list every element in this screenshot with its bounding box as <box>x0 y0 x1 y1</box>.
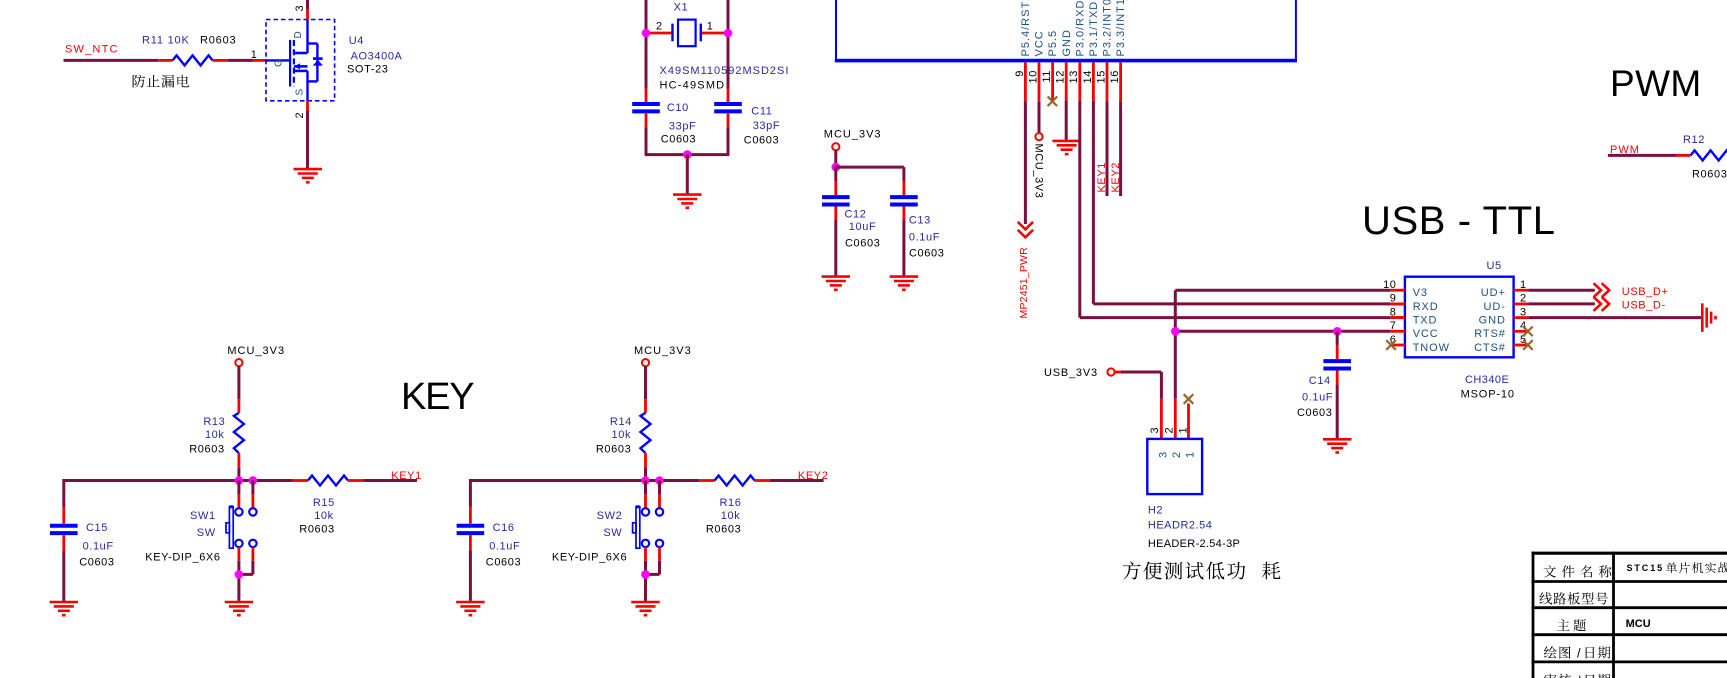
svg-text:C0603: C0603 <box>744 135 779 147</box>
svg-text:10k: 10k <box>612 429 632 441</box>
power port MCU_3V3 <box>824 129 882 151</box>
resistor R16 <box>699 476 770 536</box>
svg-text:MCU_3V3: MCU_3V3 <box>634 345 692 357</box>
svg-text:C16: C16 <box>493 522 515 534</box>
svg-text:C0603: C0603 <box>845 238 880 250</box>
power port USB_3V3 <box>1044 367 1115 379</box>
wire MCU_3V3 to R13 <box>237 366 240 413</box>
svg-text:R13: R13 <box>203 416 225 428</box>
ground C12 <box>822 277 851 290</box>
wire to KEY1 label <box>363 479 417 482</box>
table label 审核/日期 partial <box>1544 673 1610 678</box>
ground C15 <box>50 602 79 615</box>
svg-text:9: 9 <box>1390 293 1397 305</box>
svg-text:11: 11 <box>1041 70 1053 83</box>
wire KEY1 <box>1106 101 1109 196</box>
svg-text:R0603: R0603 <box>189 444 224 456</box>
svg-text:R11 10K: R11 10K <box>142 35 190 47</box>
MCU pin 16 P3.3/INT1 <box>1109 0 1127 101</box>
MCU pin 10 VCC <box>1027 30 1045 101</box>
wire C10 down <box>645 128 648 155</box>
wire SW1 left top <box>237 481 240 509</box>
svg-text:G: G <box>274 59 285 67</box>
wire SW1 right top <box>251 481 254 509</box>
header pin1 number <box>1177 427 1189 434</box>
svg-text:SW2: SW2 <box>597 510 623 522</box>
wire R13 to node <box>237 468 240 481</box>
svg-text:MP2451_PWR: MP2451_PWR <box>1018 247 1030 319</box>
svg-text:C0603: C0603 <box>909 248 944 260</box>
wire crystal bottom <box>645 153 730 156</box>
wire node KEY1 <box>64 479 293 482</box>
svg-text:KEY1: KEY1 <box>1096 162 1108 193</box>
junction SW1 bottom <box>235 570 244 579</box>
table label 绘图/日期 <box>1544 646 1610 661</box>
wire C12 top <box>834 167 837 195</box>
label 防止漏电 <box>133 75 190 88</box>
junction VCC-C14 <box>1333 327 1342 336</box>
svg-text:2: 2 <box>294 112 306 119</box>
label SW1 <box>145 510 220 563</box>
svg-text:C12: C12 <box>845 209 867 221</box>
svg-text:KEY2: KEY2 <box>798 470 829 482</box>
svg-text:R0603: R0603 <box>200 35 236 47</box>
svg-text:UD-: UD- <box>1484 301 1506 313</box>
U5 pin 2 UD- <box>1514 293 1529 305</box>
MCU pin 9 P5.4/RST <box>1014 1 1032 101</box>
svg-text:X1: X1 <box>674 2 689 14</box>
wire C13 to ground <box>902 220 905 276</box>
svg-text:P3.3/INT1: P3.3/INT1 <box>1115 0 1127 57</box>
wire GND pin12 <box>1065 101 1068 140</box>
svg-text:MCU_3V3: MCU_3V3 <box>824 129 882 141</box>
svg-text:0.1uF: 0.1uF <box>1302 392 1333 404</box>
wire crystal left vertical <box>645 0 648 89</box>
junction KEY1 b <box>249 476 258 485</box>
wire C14 top <box>1336 331 1339 359</box>
svg-text:C14: C14 <box>1309 375 1331 387</box>
wire MCU_3V3 to C13 <box>836 166 904 169</box>
net arrow USB_D- <box>1594 297 1666 312</box>
power port MCU_3V3 SW2 <box>634 345 692 366</box>
net arrow USB_D+ <box>1594 283 1669 298</box>
capacitor C16 <box>457 522 522 569</box>
svg-text:C0603: C0603 <box>661 134 696 146</box>
svg-text:VCC: VCC <box>1034 30 1046 56</box>
svg-text:15: 15 <box>1095 70 1107 83</box>
table label 文件名称 <box>1544 565 1612 577</box>
svg-text:KEY2: KEY2 <box>1110 162 1122 193</box>
svg-text:10k: 10k <box>314 510 334 522</box>
svg-text:7: 7 <box>1390 320 1397 332</box>
label SW2 <box>552 510 627 563</box>
U5 pin 5 CTS# <box>1514 334 1529 346</box>
wire C15 to ground <box>62 551 65 601</box>
transistor U4 <box>266 20 335 101</box>
wire C14 to ground <box>1336 385 1339 438</box>
svg-text:C0603: C0603 <box>1297 407 1332 419</box>
wire SW2 left top <box>644 481 647 509</box>
ground SW1 <box>225 602 254 615</box>
svg-text:C0603: C0603 <box>486 557 521 569</box>
U5 pin 1 UD+ <box>1514 279 1529 291</box>
svg-text:1: 1 <box>251 49 258 61</box>
wire SW2 right top <box>658 481 661 509</box>
capacitor C13 <box>890 197 944 259</box>
title PWM <box>1610 63 1702 104</box>
capacitor C14 <box>1297 361 1351 419</box>
junction SW2 bottom <box>641 570 650 579</box>
svg-text:KEY-DIP_6X6: KEY-DIP_6X6 <box>145 551 220 563</box>
svg-text:2: 2 <box>656 21 663 33</box>
svg-text:R12: R12 <box>1683 134 1705 146</box>
net label KEY2 <box>798 470 829 482</box>
svg-text:U5: U5 <box>1487 260 1502 272</box>
svg-text:STC15: STC15 <box>1627 563 1665 573</box>
wire VCC net <box>1175 330 1390 333</box>
wire crystal right vertical <box>727 0 730 89</box>
ground C14 <box>1323 439 1352 452</box>
capacitor C11 <box>714 89 780 147</box>
svg-text:P5.5: P5.5 <box>1047 30 1059 57</box>
wire VCC to MCU_3V3 <box>1038 101 1041 133</box>
wire U5 GND <box>1528 316 1702 319</box>
svg-text:3: 3 <box>1157 451 1169 458</box>
header pin3 number <box>1149 427 1161 434</box>
wire C15 top <box>62 479 65 524</box>
svg-text:3: 3 <box>294 5 306 12</box>
wire P3.1 to U5 RXD <box>1093 101 1405 304</box>
ground U4 <box>294 169 323 182</box>
MCU pin 11 P5.5 <box>1041 30 1059 101</box>
resistor R12 <box>1683 134 1727 181</box>
pin 3 label U4 <box>294 5 306 12</box>
svg-text:KEY: KEY <box>401 376 474 418</box>
net label PWM <box>1610 144 1640 156</box>
svg-text:R0603: R0603 <box>596 444 631 456</box>
svg-text:1: 1 <box>707 21 714 33</box>
svg-text:USB_D-: USB_D- <box>1622 300 1666 312</box>
svg-text:SW_NTC: SW_NTC <box>65 44 119 56</box>
svg-text:KEY1: KEY1 <box>391 470 422 482</box>
svg-text:USB_3V3: USB_3V3 <box>1044 367 1098 379</box>
svg-text:SW1: SW1 <box>190 510 216 522</box>
svg-text:S: S <box>294 89 305 96</box>
svg-text:33pF: 33pF <box>669 121 696 133</box>
svg-text:33pF: 33pF <box>753 120 780 132</box>
pin 1 label U4 <box>251 49 258 61</box>
svg-text:USB - TTL: USB - TTL <box>1362 199 1556 243</box>
svg-text:3: 3 <box>1520 306 1527 318</box>
no-connect U5 RTS# <box>1523 327 1533 337</box>
wire USB_D+ <box>1528 289 1595 292</box>
IC U5 CH340E <box>1405 277 1514 358</box>
junction KEY2 a <box>641 476 650 485</box>
wire C16 top <box>469 479 472 524</box>
wire R11 to U4 gate <box>227 59 267 62</box>
svg-text:/: / <box>1577 646 1581 661</box>
svg-text:P3.1/TXD: P3.1/TXD <box>1088 1 1100 57</box>
svg-text:R0603: R0603 <box>1692 169 1727 181</box>
wire C16 to ground <box>469 551 472 601</box>
table value MCU <box>1626 618 1651 630</box>
resistor R15 <box>293 476 364 536</box>
junction crystal left <box>642 29 651 38</box>
capacitor C15 <box>50 522 115 569</box>
MCU pin 14 P3.1/TXD <box>1082 1 1100 101</box>
svg-text:AO3400A: AO3400A <box>351 51 403 63</box>
U5 pin 9 RXD <box>1390 293 1405 305</box>
wire MCU_3V3 to R14 <box>644 366 647 413</box>
wire node KEY2 <box>470 479 699 482</box>
label X49SM110592MSD2SI HC-49SMD <box>660 65 790 92</box>
svg-text:2: 2 <box>1164 427 1176 434</box>
no-connect header pin1 <box>1184 394 1194 404</box>
wire SW2 right bottom <box>646 547 660 574</box>
pin 2 label U4 <box>294 112 306 119</box>
svg-text:X49SM110592MSD2SI: X49SM110592MSD2SI <box>660 65 790 77</box>
svg-text:HEADR2.54: HEADR2.54 <box>1148 520 1212 532</box>
svg-text:USB_D+: USB_D+ <box>1622 286 1669 298</box>
table label 线路板型号 <box>1539 592 1607 604</box>
ground C16 <box>456 602 485 615</box>
svg-text:16: 16 <box>1109 70 1121 83</box>
svg-text:10: 10 <box>1027 70 1039 83</box>
wire SW1 right bottom <box>239 547 253 574</box>
table label 主题 <box>1557 619 1586 631</box>
wire SW1 left bottom <box>237 547 240 601</box>
U5 pin 8 TXD <box>1390 306 1405 318</box>
svg-text:SW: SW <box>603 527 622 539</box>
junction crystal right <box>724 29 733 38</box>
wire R14 to node <box>644 468 647 481</box>
wire USB_D- <box>1528 302 1595 305</box>
ground C13 <box>890 277 919 290</box>
wire V3 net <box>1175 290 1390 439</box>
label CH340E MSOP-10 <box>1461 374 1515 400</box>
svg-text:14: 14 <box>1082 70 1094 83</box>
header pin2 number <box>1164 427 1176 434</box>
svg-text:KEY-DIP_6X6: KEY-DIP_6X6 <box>552 551 627 563</box>
U5 pin 10 V3 <box>1383 279 1405 291</box>
wire USB_3V3 to header <box>1115 372 1162 439</box>
net label SW_NTC <box>65 44 119 56</box>
svg-text:R14: R14 <box>610 416 632 428</box>
svg-text:CH340E: CH340E <box>1465 374 1509 386</box>
svg-text:MCU: MCU <box>1626 618 1651 630</box>
svg-text:GND: GND <box>1479 315 1506 327</box>
svg-text:3: 3 <box>1149 427 1161 434</box>
label U4 AO3400A SOT-23 <box>347 35 403 76</box>
svg-text:R0603: R0603 <box>299 524 334 536</box>
svg-text:MSOP-10: MSOP-10 <box>1461 388 1515 400</box>
title block table <box>1532 552 1727 678</box>
svg-text:10k: 10k <box>205 429 225 441</box>
svg-text:MCU_3V3: MCU_3V3 <box>227 345 285 357</box>
MCU pin 15 P3.2/INT0 <box>1095 0 1113 101</box>
wire MP2451_PWR <box>1024 101 1027 224</box>
switch SW1 <box>226 507 257 548</box>
header inner pin numbers <box>1157 451 1196 458</box>
junction VCC-V3 <box>1171 327 1180 336</box>
junction KEY2 b <box>655 476 664 485</box>
wire C13 top <box>902 167 905 195</box>
svg-text:C13: C13 <box>909 215 931 227</box>
wire C11 down <box>727 128 730 155</box>
wire MCU_3V3 down <box>834 150 837 168</box>
svg-text:8: 8 <box>1390 306 1397 318</box>
net arrow MP2451_PWR <box>1018 222 1033 319</box>
MCU U3 box edge <box>835 0 1297 61</box>
svg-text:RXD: RXD <box>1413 301 1439 313</box>
svg-text:UD+: UD+ <box>1481 287 1506 299</box>
svg-text:PWM: PWM <box>1610 63 1702 104</box>
svg-text:RTS#: RTS# <box>1474 328 1506 340</box>
no-connect U5 TNOW <box>1386 340 1396 350</box>
svg-text:2: 2 <box>1520 293 1527 305</box>
svg-text:R16: R16 <box>720 497 742 509</box>
svg-text:10k: 10k <box>721 510 741 522</box>
svg-text:0.1uF: 0.1uF <box>489 541 520 553</box>
svg-text:V3: V3 <box>1413 287 1428 299</box>
ground MCU pin12 <box>1052 141 1081 154</box>
wire SW2 left bottom <box>644 547 647 601</box>
title KEY <box>401 376 474 418</box>
svg-text:HC-49SMD: HC-49SMD <box>660 80 726 92</box>
svg-text:12: 12 <box>1055 70 1067 83</box>
label X1 <box>674 2 689 14</box>
svg-text:H2: H2 <box>1148 505 1163 517</box>
resistor R13 <box>189 413 244 468</box>
wire P3.0 to U5 TXD <box>1080 101 1405 318</box>
wire to crystal ground <box>686 155 689 194</box>
U5 pin 7 VCC <box>1390 320 1405 332</box>
svg-text:SOT-23: SOT-23 <box>347 64 389 76</box>
svg-text:HEADER-2.54-3P: HEADER-2.54-3P <box>1148 538 1240 550</box>
svg-text:R0603: R0603 <box>706 524 741 536</box>
ground right USB <box>1702 303 1715 332</box>
junction crystal bottom <box>683 150 692 159</box>
no-connect pin 11 <box>1048 97 1058 107</box>
no-connect U5 CTS# <box>1523 340 1533 350</box>
svg-text:1: 1 <box>1184 451 1196 458</box>
MCU pin 13 P3.0/RXD <box>1068 0 1086 101</box>
wire C12 to ground <box>834 220 837 276</box>
svg-text:C10: C10 <box>667 102 689 114</box>
title USB - TTL <box>1362 199 1556 243</box>
wire to KEY2 label <box>770 479 824 482</box>
svg-text:P3.2/INT0: P3.2/INT0 <box>1102 0 1114 57</box>
svg-text:0.1uF: 0.1uF <box>83 541 114 553</box>
wire KEY2 <box>1119 101 1122 196</box>
crystal X1 <box>650 20 724 47</box>
svg-text:R15: R15 <box>313 497 335 509</box>
switch SW2 <box>633 507 664 548</box>
svg-text:C11: C11 <box>751 106 772 118</box>
power port MCU_3V3 at pin10 <box>1033 133 1045 198</box>
header H2 box <box>1147 439 1202 494</box>
svg-text:P3.0/RXD: P3.0/RXD <box>1074 0 1086 57</box>
svg-text:P5.4/RST: P5.4/RST <box>1020 1 1032 57</box>
label U5 <box>1487 260 1502 272</box>
svg-text:C0603: C0603 <box>79 557 114 569</box>
ground SW2 <box>631 602 660 615</box>
table value STC15 单片机实战 <box>1627 562 1727 573</box>
svg-text:GND: GND <box>1061 29 1073 56</box>
wire U4 source down <box>306 101 309 168</box>
wire header pin1 <box>1187 404 1190 440</box>
svg-text:/: / <box>1577 673 1581 678</box>
U5 pin 3 GND <box>1514 306 1529 318</box>
junction MCU_3V3 <box>832 163 841 172</box>
capacitor C10 <box>632 89 696 146</box>
net label KEY1 <box>391 470 422 482</box>
wire PWM <box>1608 154 1691 157</box>
svg-text:TNOW: TNOW <box>1413 342 1450 354</box>
svg-text:MCU_3V3: MCU_3V3 <box>1033 144 1045 199</box>
svg-text:SW: SW <box>197 527 216 539</box>
U5 pin 4 RTS# <box>1514 320 1529 332</box>
svg-text:C15: C15 <box>86 522 108 534</box>
wire SW_NTC to R11 <box>64 59 159 62</box>
resistor R14 <box>596 413 651 468</box>
MCU pin 12 GND <box>1055 29 1073 101</box>
wire U4 drain up <box>306 0 309 20</box>
svg-text:9: 9 <box>1014 70 1026 77</box>
svg-text:D: D <box>293 31 304 38</box>
svg-text:VCC: VCC <box>1413 328 1439 340</box>
U5 pin 6 TNOW <box>1390 334 1405 346</box>
pin 2 label X1 <box>656 21 663 33</box>
net label KEY1 vert <box>1096 162 1108 193</box>
svg-text:0.1uF: 0.1uF <box>909 232 940 244</box>
svg-text:U4: U4 <box>349 35 364 47</box>
capacitor C12 <box>822 197 880 249</box>
resistor R11 <box>142 35 236 66</box>
svg-text:13: 13 <box>1068 70 1080 83</box>
power port MCU_3V3 SW1 <box>227 345 285 366</box>
junction KEY1 a <box>235 476 244 485</box>
svg-text:TXD: TXD <box>1413 315 1438 327</box>
net label KEY2 vert <box>1110 162 1122 193</box>
svg-text:2: 2 <box>1171 451 1183 458</box>
svg-text:1: 1 <box>1177 427 1189 434</box>
pin 1 label X1 <box>707 21 714 33</box>
svg-text:10uF: 10uF <box>849 221 876 233</box>
ground crystal <box>673 195 702 208</box>
svg-text:CTS#: CTS# <box>1474 342 1506 354</box>
label H2 HEADR2.54 <box>1148 505 1240 551</box>
label 方便测试低功耗 <box>1123 561 1281 579</box>
svg-text:1: 1 <box>1520 279 1527 291</box>
